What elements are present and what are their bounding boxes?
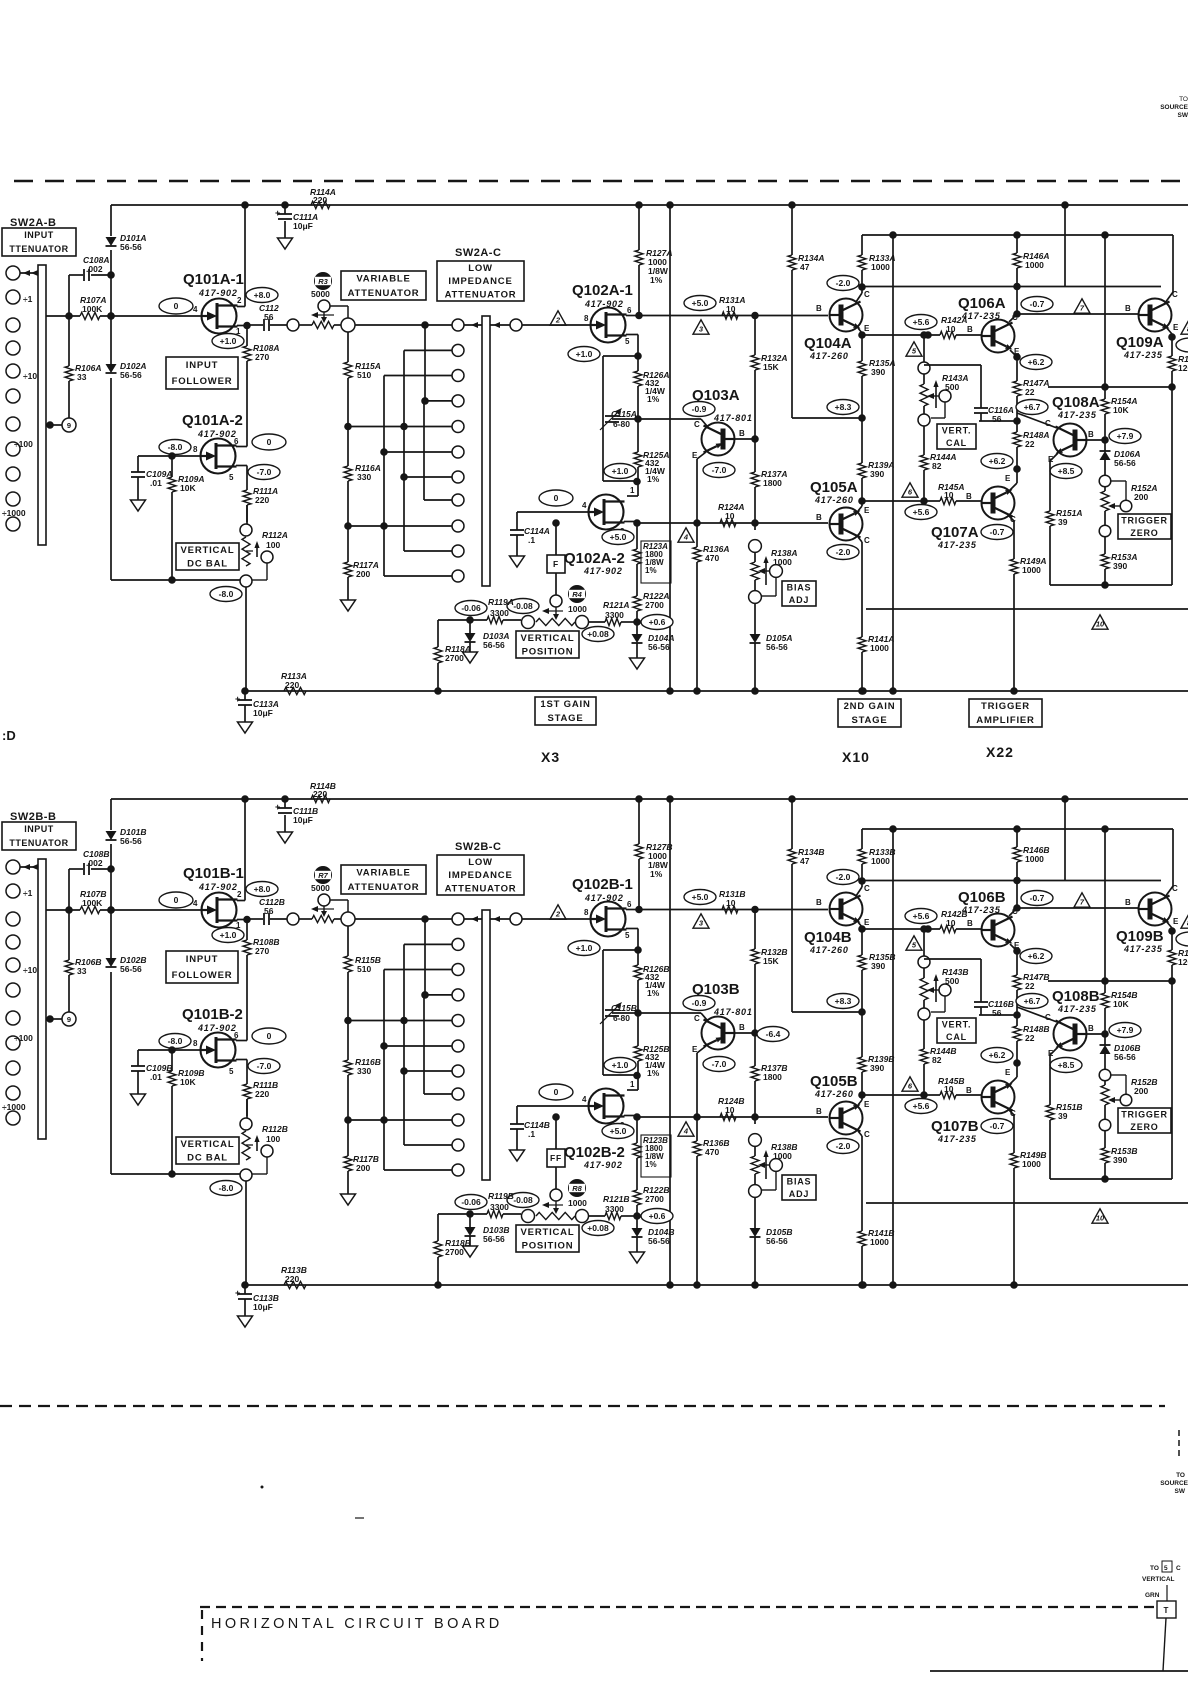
voltage oval +7.9 — [1109, 1023, 1141, 1038]
svg-text:VARIABLE: VARIABLE — [356, 868, 410, 879]
transistor Q107A — [931, 474, 1016, 550]
svg-text:3300: 3300 — [605, 1204, 624, 1214]
wire Q102B-2 gate line — [517, 1105, 588, 1107]
svg-text:1%: 1% — [647, 394, 660, 404]
ground below C111A — [278, 238, 293, 249]
svg-text:56: 56 — [264, 906, 274, 916]
svg-text:417-235: 417-235 — [1057, 1004, 1097, 1014]
wire Q109A collector — [1165, 235, 1173, 303]
svg-text:82: 82 — [932, 1055, 942, 1065]
svg-text:-2.0: -2.0 — [836, 278, 851, 288]
svg-text:417-902: 417-902 — [583, 566, 623, 576]
svg-text:SW: SW — [1175, 1488, 1186, 1495]
svg-text:417-260: 417-260 — [809, 351, 849, 361]
resistor R134B — [788, 799, 862, 1012]
svg-text:TO: TO — [1176, 1472, 1185, 1479]
node 9 circle — [62, 418, 76, 432]
pot R112A dc bal — [240, 505, 288, 587]
voltage oval +1.0 lower — [604, 1058, 636, 1073]
svg-text:+: + — [235, 1288, 240, 1298]
voltage oval +8.5 — [1050, 1058, 1082, 1073]
dashed stub right edge — [1178, 1430, 1180, 1457]
resistor R118B — [434, 1238, 471, 1289]
wire Q104A emitter node — [858, 328, 940, 339]
wire Q105B collector down — [858, 1131, 862, 1231]
box VARIABLE ATTENUATOR — [341, 865, 426, 894]
svg-text:Q106A: Q106A — [958, 295, 1006, 312]
box VERT CAL — [937, 424, 976, 449]
svg-text:22: 22 — [1025, 387, 1035, 397]
svg-text:+5.6: +5.6 — [913, 317, 930, 327]
voltage oval -2.0 Q105B — [827, 1139, 859, 1154]
svg-text:+8.3: +8.3 — [835, 996, 852, 1006]
svg-text:VERTICAL: VERTICAL — [1142, 1576, 1175, 1583]
svg-text:C115A: C115A — [611, 409, 637, 419]
label attenuation factors — [2, 294, 37, 518]
svg-text:C115B: C115B — [611, 1003, 637, 1013]
transistor Q104A — [804, 287, 870, 361]
svg-text:IMPEDANCE: IMPEDANCE — [448, 276, 512, 287]
svg-text:1%: 1% — [645, 566, 657, 575]
voltage oval +0.6 — [641, 615, 673, 630]
svg-text:15K: 15K — [763, 362, 779, 372]
voltage oval -0.9 — [683, 996, 715, 1011]
svg-text:9: 9 — [67, 1015, 71, 1024]
svg-text:10K: 10K — [180, 483, 196, 493]
svg-text:SW2A-B: SW2A-B — [10, 217, 56, 229]
resistor R139B — [858, 1012, 894, 1099]
resistor R135B — [858, 929, 895, 1016]
wire y314 to Q109A — [1017, 313, 1139, 315]
svg-text:5: 5 — [625, 337, 630, 346]
resistor R141B — [858, 1228, 894, 1289]
transistor Q106A — [958, 295, 1020, 356]
svg-text:1000: 1000 — [773, 557, 792, 567]
svg-text:2: 2 — [555, 316, 561, 325]
svg-text:.01: .01 — [150, 478, 162, 488]
svg-text:417-902: 417-902 — [197, 1023, 237, 1033]
voltage oval +0.6 — [641, 1209, 673, 1224]
voltage oval +6.2 upper — [1020, 355, 1052, 370]
voltage oval +8.3 — [827, 400, 859, 415]
voltage oval +5.6 lower — [905, 505, 937, 520]
svg-text:VERTICAL: VERTICAL — [521, 1227, 575, 1238]
switch wafer SW2B-B bar — [38, 859, 46, 1139]
svg-text:Q106B: Q106B — [958, 889, 1006, 906]
box TRIGGER ZERO — [1118, 514, 1171, 539]
voltage oval +8.0 — [246, 288, 278, 303]
wire signal line 1st gain — [639, 315, 828, 317]
voltage oval -8.0 bottom — [210, 587, 242, 602]
transistor Q108B — [1045, 988, 1100, 1058]
svg-text:1000: 1000 — [773, 1151, 792, 1161]
svg-text:56-56: 56-56 — [120, 836, 142, 846]
resistor R145B — [938, 1076, 981, 1099]
svg-text:E: E — [1173, 917, 1179, 926]
wire R118B branch — [438, 1214, 470, 1241]
svg-text:10: 10 — [946, 324, 956, 334]
svg-text:56: 56 — [992, 414, 1002, 424]
ground below C114B — [510, 1150, 525, 1161]
voltage oval 0 Q101A-2 — [252, 434, 286, 450]
svg-text:C: C — [694, 420, 700, 429]
diode D101A — [106, 233, 147, 252]
svg-text:TO: TO — [1150, 1565, 1159, 1572]
svg-text:10μF: 10μF — [253, 1302, 273, 1312]
svg-text:B: B — [966, 492, 972, 501]
svg-text:B: B — [816, 898, 822, 907]
triangle ref 8 partial — [1181, 914, 1188, 928]
svg-text:0: 0 — [174, 301, 179, 311]
wire Q101A-2 drain up — [236, 444, 247, 447]
svg-text:2700: 2700 — [445, 1247, 464, 1257]
svg-text:3300: 3300 — [605, 610, 624, 620]
svg-text:1000: 1000 — [870, 1237, 889, 1247]
resistor R149A — [1010, 556, 1046, 695]
svg-text:B: B — [816, 304, 822, 313]
wire Q102B-1 source loop — [603, 929, 642, 1080]
pot R138B bias — [749, 1134, 798, 1198]
svg-text:+6.7: +6.7 — [1024, 996, 1041, 1006]
speck — [261, 1486, 264, 1489]
svg-text:2: 2 — [237, 890, 242, 899]
svg-text:AMPLIFIER: AMPLIFIER — [976, 715, 1034, 726]
diode D106A — [1100, 440, 1141, 475]
wire Q109B emitter — [1166, 921, 1176, 950]
wire to 1st gain stage — [522, 324, 591, 326]
svg-text:2700: 2700 — [445, 653, 464, 663]
svg-text:22: 22 — [1025, 1033, 1035, 1043]
svg-text:+1.0: +1.0 — [612, 466, 629, 476]
capacitor C112 — [247, 897, 287, 925]
svg-text:+8.0: +8.0 — [254, 290, 271, 300]
terminal circle after C112 — [287, 913, 299, 925]
svg-text:0: 0 — [174, 895, 179, 905]
svg-text:390: 390 — [1113, 1155, 1127, 1165]
voltage oval 0 at Q101A-1 gate — [159, 298, 193, 314]
svg-text:Q108A: Q108A — [1052, 394, 1100, 411]
svg-text:R112A: R112A — [262, 530, 288, 540]
svg-text:+: + — [275, 208, 280, 218]
svg-text:INPUT: INPUT — [24, 230, 54, 240]
svg-text:+5.6: +5.6 — [913, 911, 930, 921]
svg-text:+: + — [275, 802, 280, 812]
svg-text:R119A: R119A — [488, 597, 514, 607]
voltage oval +1.0 — [212, 928, 244, 943]
resistor R119B — [466, 1191, 521, 1218]
svg-text:417-235: 417-235 — [1123, 350, 1163, 360]
svg-text:200: 200 — [1134, 1086, 1148, 1096]
voltage oval 0 Q101B-2 — [252, 1028, 286, 1044]
resistor R114A — [310, 187, 336, 209]
resistor R125B — [634, 1013, 669, 1078]
svg-text:TTENUATOR: TTENUATOR — [9, 838, 68, 848]
svg-text:B: B — [816, 1107, 822, 1116]
resistor R149B — [1010, 1150, 1046, 1289]
svg-text:1%: 1% — [647, 474, 660, 484]
resistor R108A — [243, 326, 279, 445]
svg-text:TRIGGER: TRIGGER — [1121, 516, 1168, 526]
switch wafer SW2A-C bar — [482, 316, 490, 586]
dashed border mid — [0, 1405, 1165, 1407]
resistor R117A — [344, 526, 379, 600]
svg-text:E: E — [864, 324, 870, 333]
resistor R108B — [243, 920, 279, 1039]
box INPUT FOLLOWER — [166, 357, 238, 389]
svg-text:-0.9: -0.9 — [692, 998, 707, 1008]
diode D104B — [632, 1216, 675, 1252]
svg-text:Q101A-1: Q101A-1 — [183, 271, 244, 288]
pot R4 wiper — [542, 573, 587, 620]
terminal circle attenuator in — [341, 912, 355, 926]
triangle ref 6 — [902, 483, 918, 497]
resistor R122B — [633, 1185, 669, 1216]
svg-text:INPUT: INPUT — [24, 824, 54, 834]
speck 2 — [355, 1517, 364, 1519]
wire Q102A-1 drain to signal — [626, 312, 643, 320]
diode D105A — [750, 603, 793, 695]
svg-text:Q107B: Q107B — [931, 1118, 979, 1135]
resistor R144A — [920, 426, 956, 501]
svg-text:VARIABLE: VARIABLE — [356, 273, 410, 284]
svg-text:1000: 1000 — [1022, 1159, 1041, 1169]
svg-text:C: C — [864, 536, 870, 545]
transistor Q108A — [1045, 394, 1100, 464]
svg-text:56: 56 — [264, 312, 274, 322]
capacitor C116B — [924, 959, 1021, 1019]
wire left feed vertical — [107, 799, 115, 1174]
wire Q105A emitter node — [858, 497, 940, 511]
wire Q102A-2 gate line — [517, 511, 588, 513]
svg-text:+1.0: +1.0 — [576, 943, 593, 953]
svg-text:500: 500 — [945, 382, 959, 392]
wire Q108B emitter — [1050, 1047, 1058, 1105]
svg-text:+8.0: +8.0 — [254, 884, 271, 894]
wire from T box down — [1163, 1618, 1166, 1671]
voltage oval -7.0 — [703, 1057, 735, 1072]
svg-text:ATTENUATOR: ATTENUATOR — [445, 290, 517, 301]
wire Q101B-2 gate line — [138, 1049, 200, 1051]
svg-text:+8.3: +8.3 — [835, 402, 852, 412]
svg-text:TRIGGER: TRIGGER — [1121, 1110, 1168, 1120]
wire top rail + — [111, 795, 1188, 803]
resistor R133B — [858, 829, 895, 885]
wire bottom rail — [241, 1281, 1188, 1289]
transistor Q105B — [810, 1073, 870, 1139]
svg-text:56-56: 56-56 — [120, 242, 142, 252]
svg-text:417-902: 417-902 — [584, 299, 624, 309]
label TO 5 VERTICAL — [1142, 1561, 1181, 1583]
voltage oval +8.3 — [827, 994, 859, 1009]
svg-text:-0.08: -0.08 — [513, 601, 533, 611]
capacitor C109A — [131, 456, 172, 500]
svg-text:-2.0: -2.0 — [836, 547, 851, 557]
svg-text:ATTENUATOR: ATTENUATOR — [445, 884, 517, 895]
capacitor C108B — [69, 849, 111, 910]
wire left feed vertical — [107, 205, 115, 580]
svg-text:56-56: 56-56 — [120, 370, 142, 380]
svg-text:10K: 10K — [180, 1077, 196, 1087]
svg-text:÷1: ÷1 — [23, 294, 33, 304]
svg-text:3300: 3300 — [490, 608, 509, 618]
voltage oval -0.08 — [507, 1193, 539, 1208]
voltage oval -0.7 Q107A — [981, 525, 1013, 540]
svg-text:+0.08: +0.08 — [587, 629, 609, 639]
svg-text:10: 10 — [1096, 620, 1105, 629]
wire Q102B-2 source to signal2 — [624, 1113, 641, 1121]
wire Q108A collector diag — [1017, 413, 1057, 428]
wire Q107B emitter up — [1009, 1063, 1017, 1085]
svg-text:390: 390 — [870, 469, 884, 479]
svg-text:÷10: ÷10 — [23, 371, 37, 381]
resistor R126A — [634, 356, 669, 423]
svg-text:Q104A: Q104A — [804, 335, 852, 352]
triangle ref 3 — [693, 320, 709, 334]
svg-text:-2.0: -2.0 — [836, 1141, 851, 1151]
pot R112B dc bal — [240, 1099, 288, 1181]
terminal circle after wafer — [510, 913, 522, 925]
svg-text:10: 10 — [946, 918, 956, 928]
resistor R137B — [751, 1033, 787, 1124]
svg-text:ADJ: ADJ — [789, 1189, 809, 1199]
resistor R137A — [751, 439, 787, 530]
svg-text:10: 10 — [726, 304, 736, 314]
svg-text:C: C — [864, 290, 870, 299]
svg-text:5: 5 — [229, 1067, 234, 1076]
svg-text:417-235: 417-235 — [961, 311, 1001, 321]
resistor R115A — [344, 332, 381, 430]
svg-text:-0.7: -0.7 — [1030, 893, 1045, 903]
capacitor C111A — [275, 205, 318, 238]
svg-text:0: 0 — [267, 1031, 272, 1041]
wire Q102A-2 source to signal2 — [624, 519, 641, 527]
svg-text:1%: 1% — [650, 869, 663, 879]
svg-text:Q107A: Q107A — [931, 524, 979, 541]
transistor Q104B — [804, 881, 870, 955]
svg-text:VERTICAL: VERTICAL — [521, 633, 575, 644]
svg-text:39: 39 — [1058, 1111, 1068, 1121]
svg-text:417-902: 417-902 — [197, 429, 237, 439]
wire Q108B collector diag — [1017, 1007, 1057, 1022]
svg-text:+7.9: +7.9 — [1117, 1025, 1134, 1035]
resistor R135A — [858, 335, 895, 422]
wire input with arrows — [20, 864, 38, 870]
box INPUT ATTENUATOR — [2, 822, 76, 850]
svg-text:÷1000: ÷1000 — [2, 508, 26, 518]
svg-text:390: 390 — [870, 1063, 884, 1073]
voltage oval -0.06 — [455, 1195, 487, 1210]
pot R152B trigger zero — [1099, 1069, 1157, 1131]
ground below C109B — [131, 1094, 146, 1105]
svg-text:R119B: R119B — [488, 1191, 514, 1201]
svg-text:ZERO: ZERO — [1130, 528, 1158, 538]
svg-text:4: 4 — [582, 501, 587, 510]
voltage oval +5.0 — [684, 296, 716, 311]
wire Q107B collector down — [1009, 1110, 1014, 1153]
wire long vertical x670 — [666, 799, 674, 1289]
ladder bus wires — [348, 919, 452, 1170]
wire attenuator line — [355, 321, 452, 329]
svg-text:GRN: GRN — [1145, 1592, 1160, 1599]
resistor R109B — [168, 1046, 204, 1178]
svg-text:Q105B: Q105B — [810, 1073, 858, 1090]
svg-text:56-56: 56-56 — [120, 964, 142, 974]
svg-text:0: 0 — [554, 493, 559, 503]
wire bottom rail — [241, 687, 1188, 695]
wire Q106B emitter chain — [1010, 944, 1021, 975]
svg-text:1000: 1000 — [1025, 854, 1044, 864]
svg-text:22: 22 — [1025, 439, 1035, 449]
transistor Q101B-2 — [182, 1006, 243, 1076]
svg-text:470: 470 — [705, 1147, 719, 1157]
voltage oval +8.0 — [246, 882, 278, 897]
svg-text:220: 220 — [285, 1274, 299, 1284]
resistor R148B — [1013, 1015, 1049, 1067]
svg-text::D: :D — [2, 728, 16, 743]
svg-text:C: C — [694, 1014, 700, 1023]
oval at right edge — [1176, 338, 1188, 352]
wire y314 to Q109B — [1017, 907, 1139, 909]
resistor R106A — [65, 316, 101, 418]
svg-text:417-235: 417-235 — [1057, 410, 1097, 420]
voltage oval +1.0 upper — [568, 941, 600, 956]
svg-text:ADJ: ADJ — [789, 595, 809, 605]
box TRIGGER AMPLIFIER — [969, 699, 1042, 727]
resistor R147A — [1013, 378, 1049, 421]
svg-text:CAL: CAL — [946, 438, 967, 448]
wire mid rail y286 — [862, 880, 1161, 882]
transistor Q103B — [692, 981, 753, 1054]
svg-text:270: 270 — [255, 946, 269, 956]
wire Q108A base right — [1086, 436, 1109, 444]
svg-text:82: 82 — [932, 461, 942, 471]
svg-text:3300: 3300 — [490, 1202, 509, 1212]
transistor Q101A-2 — [182, 412, 243, 482]
svg-text:390: 390 — [871, 367, 885, 377]
resistor R141A — [858, 634, 894, 695]
resistor R155A — [1168, 354, 1188, 387]
svg-text:+1.0: +1.0 — [220, 930, 237, 940]
voltage oval -8.0 gate — [159, 1034, 191, 1049]
svg-text:4: 4 — [683, 1127, 689, 1136]
voltage oval +5.0 at Q102B-2 — [602, 1124, 634, 1139]
svg-text:+8.5: +8.5 — [1058, 466, 1075, 476]
svg-text:INPUT: INPUT — [186, 954, 219, 965]
svg-text:470: 470 — [705, 553, 719, 563]
svg-text:5: 5 — [625, 931, 630, 940]
voltage oval +5.0 — [684, 890, 716, 905]
svg-text:100K: 100K — [82, 304, 103, 314]
wire R118A branch — [438, 620, 470, 647]
diode D103B — [465, 1214, 510, 1246]
diode D102A — [106, 361, 147, 380]
svg-text:E: E — [864, 1100, 870, 1109]
svg-text:÷100: ÷100 — [14, 1033, 33, 1043]
svg-text:B: B — [739, 429, 745, 438]
resistor R142A — [940, 315, 981, 339]
svg-text:R121A: R121A — [603, 600, 629, 610]
svg-text:.01: .01 — [150, 1072, 162, 1082]
wires at wafer with arrows — [464, 916, 510, 922]
wire long vertical x670 — [666, 205, 674, 695]
triangle ref 5 — [906, 936, 922, 950]
svg-text:1000: 1000 — [871, 856, 890, 866]
svg-text:10μF: 10μF — [253, 708, 273, 718]
capacitor C116A — [924, 365, 1021, 425]
svg-text:-7.0: -7.0 — [712, 1059, 727, 1069]
svg-text:.1: .1 — [528, 535, 535, 545]
svg-text:220: 220 — [255, 1089, 269, 1099]
